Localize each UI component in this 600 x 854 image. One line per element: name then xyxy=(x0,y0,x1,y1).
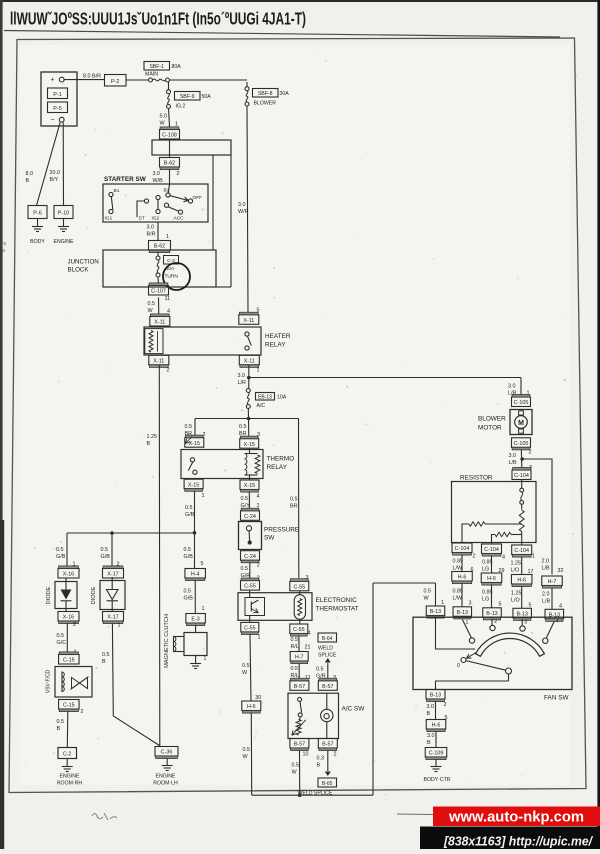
svg-text:SBF-9: SBF-9 xyxy=(180,94,195,100)
svg-text:VSV·F/CD: VSV·F/CD xyxy=(46,669,52,693)
svg-text:8.0 B/R: 8.0 B/R xyxy=(83,74,101,80)
svg-text:0.5: 0.5 xyxy=(243,747,251,753)
svg-text:BLOWER: BLOWER xyxy=(478,416,506,423)
svg-text:G/B: G/B xyxy=(184,596,194,602)
svg-text:1: 1 xyxy=(258,635,261,641)
svg-text:P-1: P-1 xyxy=(53,92,61,98)
svg-text:4: 4 xyxy=(556,619,559,625)
svg-text:ELECTRONIC: ELECTRONIC xyxy=(316,597,358,604)
svg-text:THERMO: THERMO xyxy=(267,456,295,463)
svg-text:ACC: ACC xyxy=(174,216,185,222)
svg-text:SPLICE: SPLICE xyxy=(318,653,337,659)
svg-text:G/B: G/B xyxy=(101,554,111,560)
svg-text:ENGINE: ENGINE xyxy=(54,239,74,245)
svg-text:X-16: X-16 xyxy=(63,572,74,578)
svg-text:X-17: X-17 xyxy=(107,572,118,578)
svg-text:L/B: L/B xyxy=(509,460,517,466)
svg-text:B-13: B-13 xyxy=(457,610,468,616)
svg-text:0.5: 0.5 xyxy=(185,505,193,511)
svg-text:3: 3 xyxy=(524,620,527,626)
svg-text:20.0: 20.0 xyxy=(50,170,61,176)
svg-text:C-107: C-107 xyxy=(151,289,166,295)
svg-text:0.5: 0.5 xyxy=(292,763,300,769)
svg-text:80A: 80A xyxy=(172,64,182,70)
svg-text:TURN: TURN xyxy=(165,274,179,280)
svg-text:L/R: L/R xyxy=(238,380,246,386)
svg-text:B: B xyxy=(102,659,106,665)
svg-text:SW: SW xyxy=(264,535,275,542)
svg-text:MAGNETIC CLUTCH: MAGNETIC CLUTCH xyxy=(164,614,170,668)
svg-text:BODY·CTR: BODY·CTR xyxy=(423,777,450,783)
svg-text:4: 4 xyxy=(502,555,505,561)
svg-text:C-15: C-15 xyxy=(63,703,75,709)
svg-text:4: 4 xyxy=(308,631,311,637)
svg-text:X-11: X-11 xyxy=(153,358,164,364)
svg-text:4: 4 xyxy=(559,604,562,610)
svg-text:ENGINE: ENGINE xyxy=(60,774,80,780)
svg-text:BR: BR xyxy=(290,504,298,510)
svg-text:IG.2: IG.2 xyxy=(176,104,186,110)
svg-text:B: B xyxy=(427,711,431,717)
svg-text:C-104: C-104 xyxy=(455,546,470,552)
svg-text:EB-13: EB-13 xyxy=(258,394,272,400)
svg-text:5.0: 5.0 xyxy=(160,114,168,120)
svg-text:H-4: H-4 xyxy=(191,572,200,578)
svg-text:ROOM·RH: ROOM·RH xyxy=(57,781,83,787)
svg-text:P-5: P-5 xyxy=(53,106,61,112)
svg-text:2: 2 xyxy=(257,563,260,569)
svg-text:L/O: L/O xyxy=(511,568,520,574)
svg-text:BLOCK: BLOCK xyxy=(68,267,90,274)
svg-text:30A: 30A xyxy=(280,91,290,97)
svg-text:ROOM·LH: ROOM·LH xyxy=(153,781,178,787)
svg-text:L/W: L/W xyxy=(453,566,463,572)
svg-text:FAN SW: FAN SW xyxy=(544,695,569,702)
svg-text:C-104: C-104 xyxy=(484,547,499,553)
svg-text:1.25: 1.25 xyxy=(511,561,522,567)
svg-text:SBF-1: SBF-1 xyxy=(149,64,164,70)
svg-text:H-7: H-7 xyxy=(295,655,304,661)
svg-text:1: 1 xyxy=(466,620,469,626)
svg-text:1: 1 xyxy=(202,493,205,499)
svg-text:W/R: W/R xyxy=(238,209,249,215)
svg-text:B: B xyxy=(147,441,151,447)
svg-text:0.5: 0.5 xyxy=(239,424,247,430)
svg-text:X-15: X-15 xyxy=(244,442,255,448)
svg-text:H-7: H-7 xyxy=(548,579,557,585)
svg-text:0.5: 0.5 xyxy=(242,663,250,669)
svg-text:C-105: C-105 xyxy=(514,441,529,447)
svg-text:B-62: B-62 xyxy=(154,244,165,250)
svg-text:−: − xyxy=(50,117,54,124)
svg-text:B-62: B-62 xyxy=(164,161,175,167)
svg-text:10A: 10A xyxy=(277,394,287,400)
svg-text:X-11: X-11 xyxy=(243,318,254,324)
svg-text:B-57: B-57 xyxy=(322,742,333,748)
svg-text:X-11: X-11 xyxy=(244,358,255,364)
svg-text:3.0: 3.0 xyxy=(147,225,155,231)
svg-text:0.5: 0.5 xyxy=(241,496,249,502)
svg-text:ST: ST xyxy=(139,216,145,222)
svg-text:C-55: C-55 xyxy=(244,626,256,632)
svg-text:C-15: C-15 xyxy=(63,658,75,664)
svg-text:2: 2 xyxy=(73,622,76,628)
svg-text:0.5: 0.5 xyxy=(56,547,64,553)
svg-text:B: B xyxy=(26,178,30,184)
svg-text:X-17: X-17 xyxy=(107,615,118,621)
svg-text:+: + xyxy=(50,77,54,84)
svg-text:H-6: H-6 xyxy=(432,723,441,729)
svg-text:HEATER: HEATER xyxy=(265,333,291,340)
svg-text:BLOWER: BLOWER xyxy=(254,101,277,107)
svg-text:C-55: C-55 xyxy=(244,584,256,590)
svg-text:H-6: H-6 xyxy=(517,578,526,584)
svg-text:G/B: G/B xyxy=(56,554,66,560)
svg-text:8.0: 8.0 xyxy=(26,171,34,177)
svg-text:C-105: C-105 xyxy=(514,400,529,406)
svg-text:M: M xyxy=(518,420,524,427)
svg-text:DIODE: DIODE xyxy=(46,586,52,604)
svg-text:C-104: C-104 xyxy=(514,548,529,554)
svg-text:2: 2 xyxy=(177,171,180,177)
svg-text:0.5: 0.5 xyxy=(148,301,156,307)
svg-text:PRESSURE: PRESSURE xyxy=(264,527,299,534)
svg-text:DIODE: DIODE xyxy=(91,586,97,604)
svg-text:1.25: 1.25 xyxy=(511,591,522,597)
svg-text:1.25: 1.25 xyxy=(147,434,158,440)
svg-text:2: 2 xyxy=(444,702,447,708)
svg-text:B1: B1 xyxy=(114,188,120,194)
svg-text:0.5: 0.5 xyxy=(291,637,299,643)
svg-text:10: 10 xyxy=(303,752,309,758)
svg-text:C-109: C-109 xyxy=(429,751,444,757)
svg-text:3.0: 3.0 xyxy=(153,171,161,177)
svg-text:30: 30 xyxy=(255,695,261,701)
svg-text:THERMOSTAT: THERMOSTAT xyxy=(316,606,359,613)
svg-text:[838x1163] http://upic.me/: [838x1163] http://upic.me/ xyxy=(443,834,593,849)
svg-text:2: 2 xyxy=(167,368,170,374)
svg-text:H-6: H-6 xyxy=(487,576,496,582)
svg-text:H-6: H-6 xyxy=(458,575,467,581)
svg-text:2: 2 xyxy=(473,554,476,560)
svg-text:21: 21 xyxy=(305,645,311,651)
svg-text:0.5: 0.5 xyxy=(424,589,432,595)
svg-text:LG: LG xyxy=(482,597,489,603)
svg-text:P-2: P-2 xyxy=(111,79,119,85)
svg-text:A/C SW: A/C SW xyxy=(342,706,366,713)
svg-text:0.5: 0.5 xyxy=(185,424,193,430)
svg-text:1: 1 xyxy=(166,234,169,240)
svg-text:MOTOR: MOTOR xyxy=(478,425,502,432)
svg-text:B-13: B-13 xyxy=(486,611,497,617)
svg-text:0.5: 0.5 xyxy=(57,719,65,725)
svg-text:32: 32 xyxy=(558,568,564,574)
svg-text:B-65: B-65 xyxy=(322,781,333,787)
svg-text:1: 1 xyxy=(532,554,535,560)
svg-text:A/C: A/C xyxy=(257,403,266,409)
svg-text:C-55: C-55 xyxy=(293,584,305,590)
svg-text:STARTER SW: STARTER SW xyxy=(104,176,147,183)
svg-text:X-15: X-15 xyxy=(244,483,255,489)
svg-text:3.0: 3.0 xyxy=(427,733,435,739)
svg-text:X-16: X-16 xyxy=(63,615,74,621)
svg-text:www.auto-nkp.com: www.auto-nkp.com xyxy=(448,810,584,826)
svg-text:3.0: 3.0 xyxy=(509,453,517,459)
svg-text:B: B xyxy=(2,248,5,254)
svg-text:L/B: L/B xyxy=(542,566,550,572)
svg-text:B: B xyxy=(427,740,431,746)
svg-text:LG: LG xyxy=(482,567,489,573)
svg-text:B-57: B-57 xyxy=(294,684,305,690)
svg-text:L/B: L/B xyxy=(542,599,550,605)
svg-text:C-24: C-24 xyxy=(244,554,256,560)
svg-text:ENGINE: ENGINE xyxy=(156,774,176,780)
svg-text:C-2: C-2 xyxy=(63,752,71,758)
svg-text:B/R: B/R xyxy=(147,232,156,238)
svg-text:W/B: W/B xyxy=(153,178,164,184)
svg-text:5: 5 xyxy=(201,561,204,567)
svg-text:X-15: X-15 xyxy=(188,482,199,488)
svg-text:3.0: 3.0 xyxy=(427,704,435,710)
svg-text:B/Y: B/Y xyxy=(50,177,59,183)
svg-text:L/W: L/W xyxy=(453,596,463,602)
svg-text:3.0: 3.0 xyxy=(238,202,246,208)
svg-text:1: 1 xyxy=(204,656,207,662)
svg-text:0.5: 0.5 xyxy=(291,666,299,672)
svg-text:3.0: 3.0 xyxy=(238,373,246,379)
svg-text:11: 11 xyxy=(165,296,171,302)
svg-text:0.85: 0.85 xyxy=(453,589,464,595)
svg-text:R/L: R/L xyxy=(291,644,299,650)
svg-text:25: 25 xyxy=(1,241,7,247)
svg-text:3.0: 3.0 xyxy=(508,384,516,390)
svg-text:5: 5 xyxy=(257,308,260,314)
svg-text:G/C: G/C xyxy=(57,640,67,646)
svg-text:E-3: E-3 xyxy=(191,617,199,623)
svg-text:0.3: 0.3 xyxy=(317,756,325,762)
svg-text:0.5: 0.5 xyxy=(184,547,192,553)
svg-text:50A: 50A xyxy=(202,94,212,100)
svg-text:H-6: H-6 xyxy=(247,704,256,710)
svg-text:llWUWˇJOºSS:UUU1Js˘Uo1n1Ft (In: llWUWˇJOºSS:UUU1Js˘Uo1n1Ft (In5o´ºUUGi 4… xyxy=(10,9,306,29)
svg-text:0.85: 0.85 xyxy=(482,560,493,566)
svg-text:B-13: B-13 xyxy=(430,609,441,615)
svg-text:B-64: B-64 xyxy=(322,636,333,642)
svg-text:X-15: X-15 xyxy=(189,441,200,447)
svg-text:2: 2 xyxy=(81,709,84,715)
svg-text:0.85: 0.85 xyxy=(453,559,464,565)
svg-text:C-104: C-104 xyxy=(514,473,529,479)
svg-text:B-57: B-57 xyxy=(322,684,333,690)
svg-text:2.0: 2.0 xyxy=(542,592,550,598)
svg-text:0.5: 0.5 xyxy=(101,547,109,553)
svg-text:WELD: WELD xyxy=(318,646,333,652)
svg-text:P-10: P-10 xyxy=(58,211,69,217)
svg-text:0.5: 0.5 xyxy=(316,667,324,673)
svg-text:4: 4 xyxy=(257,494,260,500)
svg-text:C-24: C-24 xyxy=(244,514,256,520)
svg-text:0.5: 0.5 xyxy=(57,633,65,639)
svg-text:G/B: G/B xyxy=(184,554,194,560)
svg-text:P-6: P-6 xyxy=(33,211,41,217)
svg-text:JUNCTION: JUNCTION xyxy=(68,259,99,266)
svg-text:SBF-8: SBF-8 xyxy=(258,91,273,97)
svg-text:C-55: C-55 xyxy=(293,627,305,633)
svg-text:0: 0 xyxy=(457,663,460,669)
svg-text:OFF: OFF xyxy=(193,195,203,201)
svg-text:3: 3 xyxy=(306,575,309,581)
svg-text:2.0: 2.0 xyxy=(542,559,550,565)
svg-text:RELAY: RELAY xyxy=(265,342,286,349)
svg-text:1: 1 xyxy=(118,623,121,629)
svg-text:L/O: L/O xyxy=(511,598,520,604)
svg-text:3: 3 xyxy=(469,601,472,607)
svg-text:BODY: BODY xyxy=(30,239,45,245)
svg-text:RELAY: RELAY xyxy=(267,464,288,471)
svg-text:1: 1 xyxy=(202,606,205,612)
svg-text:B-13: B-13 xyxy=(430,693,441,699)
svg-text:0.85: 0.85 xyxy=(482,590,493,596)
svg-text:0.5: 0.5 xyxy=(184,589,192,595)
svg-text:0.5: 0.5 xyxy=(290,497,298,503)
svg-text:C-108: C-108 xyxy=(162,133,177,139)
svg-text:0.5: 0.5 xyxy=(102,652,110,658)
svg-text:0.5: 0.5 xyxy=(241,566,249,572)
svg-text:B-13: B-13 xyxy=(517,611,528,617)
svg-text:B-57: B-57 xyxy=(294,742,305,748)
svg-text:5: 5 xyxy=(529,603,532,609)
svg-text:MAIN: MAIN xyxy=(145,72,158,78)
svg-text:B: B xyxy=(57,726,61,732)
svg-text:IG1: IG1 xyxy=(105,216,113,222)
svg-text:1: 1 xyxy=(257,368,260,374)
svg-text:5: 5 xyxy=(499,602,502,608)
svg-text:IG2: IG2 xyxy=(152,216,160,222)
svg-text:60A: 60A xyxy=(166,266,175,272)
svg-text:2: 2 xyxy=(494,619,497,625)
svg-text:X-11: X-11 xyxy=(154,320,165,326)
svg-text:2: 2 xyxy=(529,450,532,456)
svg-text:RESISTOR: RESISTOR xyxy=(460,475,493,482)
svg-text:1: 1 xyxy=(441,600,444,606)
svg-text:G/B: G/B xyxy=(185,512,195,518)
svg-text:C-36: C-36 xyxy=(161,750,173,756)
svg-text:B: B xyxy=(317,763,321,769)
